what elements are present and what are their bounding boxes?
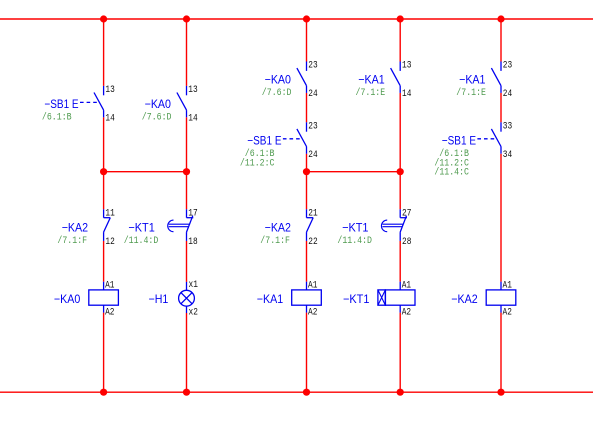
svg-text:14: 14 [188,114,197,125]
wire column 1 segment 4 [103,313,105,393]
svg-text:/11.2:C: /11.2:C [240,157,275,169]
node bottom rail col3 junction [303,389,310,396]
pushbutton NO contact SB1 33-34 [434,121,512,178]
pushbutton NO contact SB1 23-24 [240,121,318,169]
svg-text:−KA2: −KA2 [451,292,478,306]
svg-text:A1: A1 [105,281,114,292]
svg-text:−KA2: −KA2 [62,220,89,234]
svg-text:/7.1:F: /7.1:F [260,235,290,247]
svg-text:−KA1: −KA1 [358,73,385,87]
node bottom rail col5 junction [497,389,504,396]
wire column 1 segment 2 [103,117,105,209]
wire column 2 segment 4 [186,313,188,392]
svg-text:−KA0: −KA0 [54,292,81,306]
svg-text:28: 28 [402,237,411,248]
wire bottom return rail [0,391,593,393]
relay NO contact KA1 23-24 [456,61,512,101]
wire column 2 segment 1 [186,19,188,86]
wire column 3 segment 4 [306,241,308,282]
svg-text:A2: A2 [105,307,114,318]
svg-text:−KA0: −KA0 [145,97,172,111]
relay coil KA0 [54,281,119,319]
svg-text:11: 11 [105,208,114,219]
node bottom rail col1 junction [100,389,107,396]
svg-text:/7.1:F: /7.1:F [57,235,87,247]
svg-text:−SB1 E: −SB1 E [44,97,78,111]
svg-text:34: 34 [503,150,512,161]
wire column 3 segment 3 [306,154,308,210]
pushbutton NO contact SB1 13-14 [42,85,115,125]
svg-text:13: 13 [188,85,197,96]
wire column 2 segment 3 [186,241,188,282]
node bottom rail col2 junction [183,389,190,396]
svg-text:27: 27 [402,208,411,219]
wire column 3 segment 2 [306,93,308,122]
wire column 5 segment 4 [500,313,502,393]
svg-text:22: 22 [308,237,317,248]
svg-text:A2: A2 [308,307,317,318]
svg-text:x1: x1 [189,280,198,291]
relay NC contact KA2 21-22 [260,208,317,248]
svg-text:24: 24 [308,150,317,161]
wire column 3 segment 1 [306,19,308,62]
svg-text:/11.4:D: /11.4:D [124,235,159,247]
timer delayed contact KT1 27-28 [337,208,411,248]
svg-text:x2: x2 [189,308,198,319]
svg-text:−KA1: −KA1 [257,292,284,306]
svg-text:21: 21 [308,208,317,219]
svg-text:24: 24 [503,89,512,100]
svg-text:12: 12 [105,237,114,248]
svg-text:14: 14 [105,114,114,125]
svg-text:18: 18 [188,237,197,248]
svg-text:−SB1 E: −SB1 E [442,133,476,147]
svg-text:13: 13 [105,85,114,96]
relay NO contact KA0 23-24 [262,61,318,101]
wire column 4 segment 3 [399,241,401,282]
node mid col3 junction [303,168,310,175]
svg-text:A1: A1 [503,281,512,292]
svg-text:−KA0: −KA0 [265,73,292,87]
timer relay coil KT1 [343,281,415,319]
svg-text:A2: A2 [503,307,512,318]
svg-text:/11.4:C: /11.4:C [434,167,469,179]
node mid col2 junction [183,168,190,175]
svg-text:/7.1:E: /7.1:E [356,87,386,99]
wire column 1 segment 1 [103,19,105,86]
wire mid link column3-column4 [307,171,401,173]
node bottom rail col4 junction [397,389,404,396]
wire column 5 segment 3 [500,154,502,282]
wire column 1 segment 3 [103,241,105,282]
relay coil KA1 [257,281,322,319]
node mid col1 junction [100,168,107,175]
svg-text:/11.4:D: /11.4:D [337,235,372,247]
node top rail col4 junction [397,15,404,22]
node mid col4 junction [397,168,404,175]
node top rail col5 junction [497,15,504,22]
svg-text:−KT1: −KT1 [343,292,370,306]
wire column 5 segment 1 [500,19,502,62]
timer delayed contact KT1 17-18 [124,208,198,248]
svg-text:/7.6:D: /7.6:D [262,87,292,99]
node top rail col3 junction [303,15,310,22]
svg-text:A1: A1 [308,281,317,292]
svg-text:24: 24 [308,89,317,100]
svg-text:23: 23 [308,121,317,132]
wire top supply rail [0,18,593,20]
svg-text:−KA2: −KA2 [265,220,292,234]
wire column 4 segment 1 [399,19,401,62]
relay coil KA2 [451,281,515,319]
svg-text:14: 14 [402,89,411,100]
relay NO contact KA1 13-14 [356,61,412,101]
svg-text:−H1: −H1 [149,292,169,306]
relay NO contact KA0 13-14 [142,85,198,125]
svg-text:13: 13 [402,61,411,72]
wire column 5 segment 2 [500,93,502,122]
indicator lamp H1 [149,280,198,318]
wire column 3 segment 5 [306,313,308,393]
svg-text:33: 33 [503,121,512,132]
svg-text:17: 17 [188,208,197,219]
svg-text:/7.6:D: /7.6:D [142,112,172,124]
wire mid link column1-column2 [104,171,187,173]
wire column 4 segment 2 [399,93,401,209]
svg-text:A1: A1 [402,281,411,292]
svg-text:23: 23 [503,61,512,72]
relay NC contact KA2 11-12 [57,208,114,248]
svg-text:−SB1 E: −SB1 E [247,133,281,147]
svg-text:−KA1: −KA1 [459,73,486,87]
node top rail col1 junction [100,15,107,22]
node top rail col2 junction [183,15,190,22]
wire column 2 segment 2 [186,117,188,209]
svg-text:23: 23 [308,61,317,72]
svg-text:A2: A2 [402,307,411,318]
svg-text:−KT1: −KT1 [342,220,369,234]
wire column 4 segment 4 [399,313,401,393]
svg-text:/7.1:E: /7.1:E [456,87,486,99]
svg-text:−KT1: −KT1 [128,220,155,234]
svg-text:/6.1:B: /6.1:B [42,112,72,124]
